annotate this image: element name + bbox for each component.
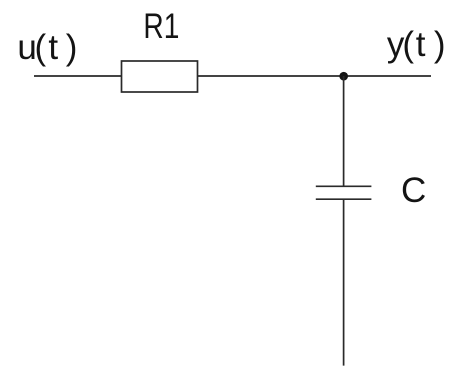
wire: input lead from u(t) to resistor R1	[34, 75, 122, 77]
svg-text:R1: R1	[143, 6, 179, 46]
wire: resistor R1 output to y(t)	[198, 75, 432, 77]
wire: capacitor C bottom plate down to bottom edge	[343, 199, 345, 365]
svg-text:y(t): y(t)	[387, 25, 446, 64]
capacitor C bottom plate	[316, 198, 372, 200]
svg-text:u(t): u(t)	[17, 28, 77, 67]
junction node (dot)	[339, 72, 348, 81]
svg-text:C: C	[401, 171, 426, 210]
resistor R1	[122, 61, 198, 92]
wire: junction down to capacitor C top plate	[343, 76, 345, 186]
capacitor C top plate	[316, 185, 372, 187]
